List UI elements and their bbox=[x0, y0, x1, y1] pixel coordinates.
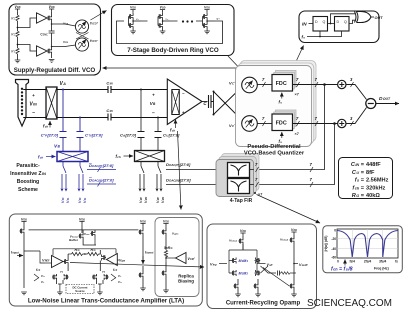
block: FDC detail (DFF + XOR) rounded rect bbox=[299, 11, 379, 43]
svg-text:-40: -40 bbox=[331, 247, 336, 251]
FIR response curve bbox=[337, 231, 398, 258]
op-amp buffer1 bbox=[37, 13, 48, 23]
svg-text:V DD: V DD bbox=[140, 220, 146, 224]
chopper CH1 (input chopper) bbox=[46, 87, 57, 119]
plot x labels bbox=[337, 260, 398, 264]
svg-text:f s: f s bbox=[302, 35, 306, 40]
svg-text:IN: IN bbox=[302, 22, 307, 27]
input pair NMOS 1 bbox=[52, 274, 57, 284]
svg-text:VCO-Based Quantizer: VCO-Based Quantizer bbox=[244, 151, 305, 157]
svg-text:Supply-Regulated Diff. VCO: Supply-Regulated Diff. VCO bbox=[14, 67, 96, 74]
switches below blue chopper bbox=[62, 162, 83, 189]
VCO circle 2 (f_vco-) bbox=[75, 38, 88, 51]
block: 7-Stage Body-Driven Ring VCO (rounded rect) bbox=[112, 5, 235, 56]
transistor NMOS (right buffer) bbox=[100, 250, 106, 271]
f_ch label chopper1 bbox=[43, 121, 50, 129]
ground opamp right bbox=[291, 294, 297, 297]
slash 7 on feedback line 2 bbox=[310, 177, 314, 187]
ground opamp bl bbox=[235, 294, 241, 297]
capacitor C_in (bottom) bbox=[106, 108, 113, 121]
f_ch switch left bbox=[34, 268, 46, 284]
svg-text:Source: Source bbox=[75, 289, 85, 293]
quantizer title bbox=[244, 144, 305, 157]
transistor M1 bbox=[232, 270, 244, 276]
svg-text:D DAC(P) [27:0]: D DAC(P) [27:0] bbox=[166, 162, 191, 167]
svg-text:FDC: FDC bbox=[276, 120, 287, 126]
svg-text:D DAC(N) [27:0]: D DAC(N) [27:0] bbox=[166, 178, 191, 183]
ground LTA mid2 bbox=[97, 284, 103, 295]
chopper CH3 (DAC chopper) bbox=[135, 151, 165, 162]
XOR output wire + OUT label bbox=[371, 16, 374, 18]
blue scheme text bbox=[10, 163, 46, 193]
svg-text:+: + bbox=[32, 93, 35, 98]
parameter text lines bbox=[351, 162, 389, 199]
D flip-flop 2 bbox=[335, 17, 350, 32]
switches below DAC chopper bbox=[140, 162, 161, 189]
wire black vertical 2 bbox=[157, 118, 159, 151]
stage wires between cells bbox=[141, 20, 202, 22]
svg-text:V DD: V DD bbox=[79, 218, 85, 222]
capacitor C_U[27:0] bbox=[155, 132, 181, 138]
LTA top rail bbox=[29, 229, 138, 231]
VDD symbol opamp right bbox=[291, 228, 297, 237]
svg-text:C IN: C IN bbox=[106, 81, 113, 86]
VDD symbol right (block1) bbox=[49, 5, 55, 15]
ground opamp bm bbox=[255, 294, 261, 297]
svg-text:C d [27:0]: C d [27:0] bbox=[120, 133, 137, 138]
resistor R2 bbox=[11, 31, 19, 37]
op-amp buffer right (mirrored) bbox=[107, 254, 127, 266]
chopper inside op-amp bbox=[172, 90, 180, 115]
svg-text:Freq (Hz): Freq (Hz) bbox=[374, 267, 389, 271]
FIR out slash 7 line2 bbox=[250, 177, 259, 187]
svg-text:V inp: V inp bbox=[210, 263, 217, 267]
svg-text:−: − bbox=[182, 91, 185, 96]
transistor PMOS (V_src cascode) bbox=[84, 230, 95, 245]
resistor ladder wire bbox=[17, 12, 19, 60]
svg-text:×7: ×7 bbox=[295, 93, 299, 97]
parameter box bbox=[339, 158, 393, 199]
svg-text:OUT: OUT bbox=[375, 16, 384, 20]
svg-text:D: D bbox=[315, 20, 318, 24]
svg-text:7-Stage Body-Driven Ring VCO: 7-Stage Body-Driven Ring VCO bbox=[127, 47, 219, 54]
rotated ref labels DAC chopper bbox=[139, 197, 165, 203]
svg-text:Insensitive Z IN: Insensitive Z IN bbox=[10, 171, 46, 177]
svg-text:V B: V B bbox=[150, 101, 156, 106]
svg-text:Low-Noise Linear Trans-Conduct: Low-Noise Linear Trans-Conductance Ampli… bbox=[28, 298, 184, 305]
svg-text:×7: ×7 bbox=[295, 132, 299, 136]
quad rails bbox=[229, 244, 257, 273]
input pair NMOS 3 bbox=[92, 274, 97, 284]
ground LTA left bbox=[21, 292, 27, 295]
svg-text:−: − bbox=[32, 110, 35, 116]
wire DFF1 to DFF2 and XOR bbox=[328, 14, 356, 24]
svg-text:V outP: V outP bbox=[299, 263, 308, 267]
capacitor C (output) bbox=[203, 95, 211, 108]
transistor PMOS (LTA bias) bbox=[19, 228, 24, 288]
svg-text:Current-Recycling Opamp: Current-Recycling Opamp bbox=[226, 301, 301, 307]
resistor 5xR_G bbox=[164, 246, 173, 262]
RC compensation (cap + resistor) bbox=[272, 271, 296, 276]
buffer loop wire bbox=[53, 249, 116, 256]
wire D_OUT bbox=[376, 103, 399, 105]
f_ch label blue chopper bbox=[38, 155, 56, 160]
Replica Biasing label bbox=[178, 274, 194, 284]
block: 4-Tap FIR (gray box) bbox=[216, 160, 254, 197]
FDC2 shadow stack bbox=[274, 110, 296, 129]
resistor R_G 2 bbox=[83, 248, 101, 256]
node feedback tap 2 bbox=[333, 122, 336, 125]
transistor PMOS A bbox=[47, 15, 52, 21]
svg-text:D DAC(P) [27:0]: D DAC(P) [27:0] bbox=[89, 163, 114, 168]
node junction black tap bottom bbox=[157, 117, 159, 119]
capacitor C_d[27:0] bbox=[120, 132, 145, 138]
wire feedback riser 2 bbox=[254, 124, 335, 185]
cross wires to VCO inputs bbox=[214, 87, 242, 120]
svg-text:I boost: I boost bbox=[145, 251, 154, 255]
ellipsis dots between stages bbox=[182, 20, 193, 22]
svg-text:D DAC(N) [27:0]: D DAC(N) [27:0] bbox=[89, 178, 114, 183]
transistor NMOS (LTA right lower) bbox=[138, 266, 143, 288]
svg-text:f s =: f s = bbox=[355, 178, 365, 184]
D flip-flop 1 bbox=[313, 17, 328, 32]
wire feedback riser 1 bbox=[254, 85, 325, 170]
f_ch switch right bbox=[111, 268, 123, 284]
svg-text:V gm: V gm bbox=[119, 259, 126, 263]
node (rail top) bbox=[213, 91, 215, 93]
wire D_DAC(n) to FIR bbox=[166, 178, 228, 188]
FDC 1 box bbox=[272, 75, 293, 92]
adder 1 bbox=[338, 80, 346, 88]
callout arrow block1 to ring VCO block bbox=[91, 11, 107, 21]
transistor NMOS replica bbox=[161, 262, 166, 290]
plot y labels bbox=[331, 229, 336, 260]
node (rail bottom) bbox=[213, 114, 215, 116]
FIR filter cell 1 bbox=[228, 163, 250, 178]
V_outP label bbox=[293, 263, 308, 267]
f_s arrow FDC2 bbox=[279, 132, 283, 144]
ring VCO stage 7 bbox=[203, 6, 216, 34]
rotated ref labels blue chopper bbox=[61, 197, 87, 203]
wire probe to chopper (bottom) bbox=[23, 117, 46, 119]
wire VCO2 to FDC2 with slash 7 bbox=[257, 116, 272, 126]
svg-text:V DD: V DD bbox=[291, 228, 297, 232]
resistor R1 bbox=[11, 15, 19, 21]
wire output rail bbox=[211, 92, 214, 115]
VDD symbol opamp left bbox=[240, 229, 246, 238]
svg-text:V DD: V DD bbox=[163, 220, 169, 224]
wire rail drop mid bbox=[82, 230, 84, 233]
svg-text:R G =: R G = bbox=[352, 193, 365, 199]
wire VCO1 to FDC1 with slash 7 bbox=[257, 77, 272, 87]
callout arrow quantizer VCO to block1 bbox=[103, 67, 244, 69]
wire buffer2 out bbox=[51, 37, 53, 58]
op-amp buffer2 bbox=[37, 46, 48, 56]
svg-text:C U =: C U = bbox=[352, 170, 365, 176]
electrode probe symbol bbox=[16, 80, 29, 127]
svg-text:f ch: f ch bbox=[36, 268, 41, 272]
node feedback tap 1 bbox=[323, 83, 326, 86]
wire top rail to right bbox=[137, 229, 139, 231]
transistor PMOS output bbox=[289, 237, 294, 283]
svg-text:C IN: C IN bbox=[106, 108, 113, 113]
ground (resistor ladder) bbox=[15, 60, 21, 63]
transistor NMOS (after buffer) bbox=[64, 254, 69, 271]
callout arrow FDC to DFF-block bbox=[290, 46, 304, 76]
resistor R3 bbox=[11, 48, 19, 54]
svg-text:Scheme: Scheme bbox=[18, 187, 38, 193]
VDD symbol replica bbox=[163, 220, 169, 230]
ring VCO stage 1 bbox=[129, 6, 142, 34]
FIR out slash 7 line1 bbox=[250, 162, 259, 172]
bottom NMOS mid bbox=[253, 279, 258, 294]
block: LTA (outer rounded rect) bbox=[9, 214, 202, 306]
FIR block shadow layers bbox=[222, 154, 260, 191]
ground LTA right bbox=[140, 288, 146, 291]
transistor PMOS (LTA right) bbox=[138, 229, 143, 262]
block: Pseudo-Differential VCO-Based Quantizer bbox=[236, 66, 312, 147]
capacitor C'_N[27:0] bbox=[77, 132, 104, 138]
svg-text:C ’N [27:0]: C ’N [27:0] bbox=[85, 133, 103, 138]
node junction black tap top bbox=[140, 89, 142, 91]
FDC1 shadow stack bbox=[274, 71, 296, 90]
svg-text:3fs/4: 3fs/4 bbox=[379, 260, 386, 264]
VDD symbol LTA right bbox=[140, 220, 146, 230]
wire adder2 to subtractor with slash 3 bbox=[346, 108, 367, 127]
svg-text:-20: -20 bbox=[331, 237, 336, 241]
svg-text:C ’P [27:0]: C ’P [27:0] bbox=[41, 133, 59, 138]
svg-text:M 2: M 2 bbox=[243, 272, 248, 276]
VDD symbol LTA left bbox=[21, 218, 27, 229]
svg-text:0: 0 bbox=[337, 260, 339, 264]
callout arrow LTA buffer to opamp block bbox=[70, 263, 204, 268]
svg-text:|H(w)| (dB): |H(w)| (dB) bbox=[324, 236, 328, 252]
capacitor C'_P[27:0] bbox=[41, 132, 67, 138]
callout arrow FIR to response plot bbox=[257, 195, 321, 224]
wire FDC1 out with slash 7 bbox=[293, 77, 338, 87]
svg-text:fs/4: fs/4 bbox=[349, 260, 355, 264]
transistor M3 bbox=[232, 258, 244, 264]
blue Dbar_DAC(n)[27:0] label and wire bbox=[87, 178, 116, 187]
svg-text:320kHz: 320kHz bbox=[366, 185, 385, 191]
node junction blue tap bottom bbox=[79, 117, 81, 119]
V_in label with + and - bbox=[29, 93, 37, 116]
transistor PMOS tail bbox=[238, 238, 243, 250]
svg-text:Buffer: Buffer bbox=[69, 238, 79, 242]
resistor R_G 1 bbox=[68, 248, 82, 256]
slash 7 on feedback line 1 bbox=[310, 162, 314, 172]
svg-text:SCIENCEAQ.COM: SCIENCEAQ.COM bbox=[307, 298, 392, 309]
plot gridlines bbox=[337, 229, 398, 258]
I_boost label bbox=[143, 251, 154, 265]
ring feedback wire bbox=[117, 21, 223, 44]
wire black vertical 1 bbox=[140, 90, 142, 151]
op-amp Gm (main amplifier triangle) bbox=[167, 79, 202, 125]
op-amp buffer (LTA) bbox=[42, 256, 63, 268]
wire adder1 to subtractor with slash 3 bbox=[346, 77, 367, 100]
recycling cross wire bbox=[263, 268, 289, 287]
VCO circle V_C+ (quantizer) bbox=[242, 77, 258, 93]
svg-text:2.56MHz: 2.56MHz bbox=[366, 178, 389, 184]
V_xP node label bbox=[257, 263, 273, 267]
svg-text:-60: -60 bbox=[331, 256, 336, 260]
svg-text:0: 0 bbox=[334, 229, 336, 233]
response plot outer box bbox=[323, 226, 403, 273]
cross-coupled wires between VCO circles bbox=[76, 33, 89, 40]
svg-text:V DD: V DD bbox=[15, 5, 21, 9]
VDD symbol LTA mid bbox=[79, 218, 85, 234]
transistor M4 bbox=[243, 258, 260, 264]
wire tap2 to buffer2 bbox=[18, 45, 37, 52]
transistor NMOS output bbox=[289, 283, 294, 294]
wire probe to chopper (top) bbox=[23, 89, 46, 91]
bottom NMOS left bbox=[233, 279, 238, 294]
wire opamp output bbox=[202, 101, 208, 103]
svg-text:−: − bbox=[152, 111, 155, 117]
wire D_DAC(p) to FIR bbox=[166, 163, 228, 173]
svg-text:f s: f s bbox=[279, 100, 283, 105]
svg-text:40kΩ: 40kΩ bbox=[366, 193, 380, 199]
wire DFF2 to XOR bbox=[349, 20, 356, 23]
wire blue vertical 1 bbox=[62, 90, 64, 152]
svg-text:5xR G: 5xR G bbox=[164, 246, 173, 250]
svg-text:448fF: 448fF bbox=[366, 162, 381, 168]
input pair NMOS 2 bbox=[63, 274, 69, 284]
wire chopper1 to opamp (top) bbox=[57, 89, 167, 91]
f_ch label DAC chopper bbox=[116, 154, 134, 159]
VDD symbol left (block1) bbox=[15, 5, 21, 12]
capacitor C_DVC bbox=[40, 31, 54, 37]
DC current source box bbox=[66, 285, 94, 294]
svg-text:Boosting: Boosting bbox=[17, 179, 39, 185]
VCO circle 1 (f_vco+) bbox=[75, 20, 88, 33]
wire blue vertical 2 bbox=[79, 118, 81, 152]
svg-text:I input: I input bbox=[11, 251, 19, 255]
wire tap1 to buffer1 bbox=[18, 18, 37, 28]
svg-text:V REF: V REF bbox=[42, 259, 50, 263]
plot axes area bbox=[337, 229, 398, 258]
f_ch = fs/8 annotation bbox=[331, 260, 353, 273]
I_input label bbox=[11, 251, 23, 256]
quantizer block shadow layers bbox=[240, 61, 316, 142]
subtractor bbox=[366, 99, 376, 109]
wires to VCO circles bbox=[52, 24, 76, 47]
svg-text:2fs/4: 2fs/4 bbox=[364, 260, 371, 264]
svg-text:D: D bbox=[337, 20, 340, 24]
svg-text:8fF: 8fF bbox=[366, 170, 375, 176]
f_ch label opamp chopper bbox=[170, 120, 176, 133]
svg-text:V B: V B bbox=[54, 144, 60, 149]
svg-text:Parasitic-: Parasitic- bbox=[16, 163, 40, 169]
svg-text:4-Tap FIR: 4-Tap FIR bbox=[230, 198, 253, 204]
svg-text:+: + bbox=[152, 93, 155, 98]
ground replica bbox=[163, 290, 169, 293]
ring VCO stage 2 bbox=[158, 6, 171, 34]
op-amp replica bbox=[165, 253, 195, 264]
svg-text:Biasing: Biasing bbox=[178, 279, 194, 284]
callout arrow opamp to LTA block bbox=[178, 131, 182, 210]
svg-text:Q: Q bbox=[344, 20, 347, 24]
V_inp label and stub bbox=[210, 263, 227, 267]
callout arrow ringVCO block to quantizer circle bbox=[228, 56, 246, 75]
transistor M2 bbox=[243, 270, 260, 276]
ground (right branch block1) bbox=[49, 60, 55, 63]
wire buffer chain bbox=[24, 251, 64, 263]
svg-text:M 4: M 4 bbox=[243, 259, 248, 263]
svg-text:f ch: f ch bbox=[170, 128, 175, 133]
svg-text:FDC: FDC bbox=[276, 81, 287, 87]
wire chopper1 to opamp (bottom) bbox=[57, 117, 167, 119]
x7 note at FIR corner bbox=[254, 192, 262, 197]
adder 2 bbox=[338, 119, 346, 127]
svg-text:f ch: f ch bbox=[38, 155, 43, 160]
block: Current-Recycling Opamp bbox=[207, 224, 317, 309]
svg-text:f ch =: f ch = bbox=[352, 185, 364, 191]
svg-text:Q: Q bbox=[323, 20, 326, 24]
svg-text:f ch: f ch bbox=[43, 124, 48, 129]
XOR gate U1 bbox=[355, 12, 372, 23]
chopper CH2 (blue boost chopper) bbox=[57, 152, 88, 162]
FDC 2 box bbox=[272, 114, 293, 131]
clock wire to flip-flops bbox=[307, 31, 342, 37]
svg-text:f ch: f ch bbox=[113, 268, 118, 272]
svg-text:fs: fs bbox=[395, 260, 398, 264]
wire FDC2 out with slash 7 bbox=[293, 116, 338, 126]
capacitor C_in (top) bbox=[106, 81, 113, 94]
block: Supply-Regulated Diff. VCO (outer rounded rect) bbox=[9, 4, 101, 75]
svg-text:V DD: V DD bbox=[21, 218, 27, 222]
recycling diagonal wire bbox=[261, 266, 273, 273]
inner block: Replica Biasing bbox=[155, 218, 199, 297]
input pair NMOS 4 bbox=[103, 274, 109, 284]
transistor PMOS replica bbox=[161, 229, 179, 250]
svg-text:Pseudo-Differential: Pseudo-Differential bbox=[247, 144, 301, 150]
svg-text:f ch: f ch bbox=[116, 154, 121, 159]
f_s arrow FDC1 bbox=[279, 93, 283, 105]
FIR filter cell 2 bbox=[228, 179, 250, 194]
svg-text:V DD: V DD bbox=[49, 5, 55, 9]
ground LTA mid1 bbox=[57, 284, 63, 295]
wire IN to DFF1 bbox=[309, 23, 314, 25]
transistor PMOS (boost buffer) bbox=[79, 233, 97, 245]
svg-text:V DD: V DD bbox=[240, 229, 246, 233]
transistor PMOS B bbox=[47, 48, 52, 54]
svg-text:V CM’: V CM’ bbox=[188, 257, 195, 261]
wire buffer1 feedback bbox=[51, 21, 53, 31]
node A junction (blue boost tap top) bbox=[62, 89, 64, 91]
blue Dbar_DAC(p)[27:0] label and wire bbox=[87, 163, 116, 172]
VCO circle V_C- (quantizer) bbox=[242, 116, 258, 132]
